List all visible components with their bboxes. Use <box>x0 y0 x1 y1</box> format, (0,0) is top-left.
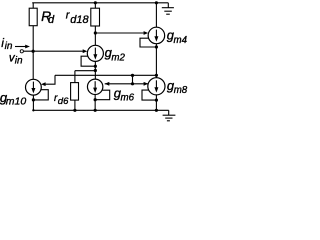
node rd6 rail <box>73 109 76 112</box>
wire gate line gm6-gm8 <box>105 83 149 85</box>
ground (bottom right) <box>163 110 176 121</box>
label iin <box>1 36 13 52</box>
wire gm4 control <box>95 32 144 34</box>
svg-text:m10: m10 <box>6 95 27 107</box>
node gm4 hook <box>155 45 158 48</box>
label gm4 <box>167 28 188 46</box>
wire bottom rail <box>33 109 169 111</box>
wire top to gm4 <box>155 3 157 27</box>
gm10 feedback hook <box>33 90 48 100</box>
gm8 feedback hook <box>142 90 156 100</box>
resistor Rd <box>29 3 37 51</box>
node gm6 rail <box>94 109 97 112</box>
svg-text:m4: m4 <box>174 35 188 46</box>
wire gm10 control <box>45 75 56 84</box>
resistor rd18 <box>91 3 100 46</box>
resistor rd6 <box>71 71 79 111</box>
arrowhead into gm2 <box>83 49 88 53</box>
gm2 feedback hook <box>81 56 95 66</box>
svg-text:in: in <box>5 41 13 52</box>
svg-text:m6: m6 <box>121 93 135 104</box>
arrowhead into gm8 <box>144 82 149 86</box>
svg-text:d6: d6 <box>58 96 69 107</box>
label gm10 <box>0 90 26 108</box>
node rd6 branch <box>94 69 97 72</box>
wire gm4 bottom to gm8 top <box>155 44 157 78</box>
wire gm6 bottom <box>94 95 96 111</box>
vccs gm8 <box>148 78 165 95</box>
node gm8 hook <box>155 99 158 102</box>
svg-text:m8: m8 <box>174 85 188 96</box>
svg-text:d18: d18 <box>70 14 89 26</box>
node gm6 hook <box>94 98 97 101</box>
wire rd6 branch to node A <box>75 70 95 72</box>
ground (top right) <box>162 3 174 14</box>
label vin <box>9 52 23 66</box>
iin current arrow <box>15 46 26 48</box>
node rd18 top <box>94 1 97 4</box>
svg-text:m2: m2 <box>111 52 125 63</box>
node gm10 hook <box>32 98 35 101</box>
svg-text:d: d <box>48 14 55 26</box>
arrowhead into gm10 <box>41 82 46 86</box>
arrowhead into gm4 <box>144 31 149 35</box>
wire gm2 bottom to gm6 top <box>94 61 96 79</box>
node A right <box>155 74 158 77</box>
node rail left corner <box>32 109 34 111</box>
gm6 feedback hook <box>95 90 110 100</box>
svg-text:in: in <box>15 55 23 66</box>
node rd18 bottom <box>94 31 97 34</box>
label rd18 <box>66 10 90 27</box>
node input <box>31 50 34 53</box>
label gm8 <box>167 78 188 96</box>
node gm2 hook <box>94 65 97 68</box>
node top right <box>155 1 158 4</box>
input terminal (open circle) <box>20 50 23 53</box>
label rd6 <box>54 93 69 107</box>
vccs gm10 <box>26 79 42 95</box>
wire top rail <box>32 2 168 4</box>
wire gm10 bottom <box>32 95 34 110</box>
arrowhead into gm6 <box>105 82 110 86</box>
wire input line to gm2 <box>24 50 84 52</box>
vccs gm6 <box>87 79 102 94</box>
label gm6 <box>114 86 135 104</box>
wire node A line <box>55 74 156 76</box>
node gm8 rail <box>155 109 158 112</box>
wire jumper <box>132 75 134 84</box>
gm4 feedback hook <box>140 38 156 47</box>
wire gm8 bottom <box>155 95 157 110</box>
label gm2 <box>105 45 126 63</box>
wire left vertical to gm10 <box>32 51 34 79</box>
vccs gm2 <box>87 45 103 61</box>
label Rd <box>41 8 55 26</box>
vccs gm4 <box>148 27 165 44</box>
